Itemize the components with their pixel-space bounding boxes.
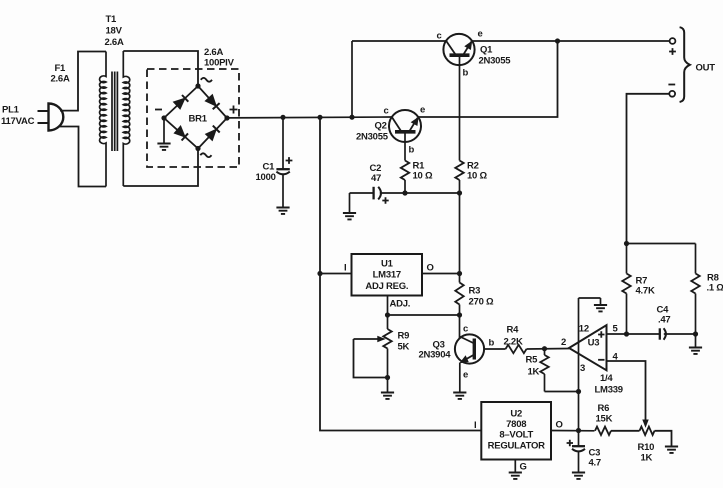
- bridge vertex nodes: [195, 83, 200, 88]
- svg-text:O: O: [556, 420, 563, 431]
- ground at R8: [689, 348, 702, 354]
- wire R8 bottom to ground: [695, 334, 697, 347]
- node C4 R8 junction: [693, 331, 698, 336]
- node R9 bottom: [385, 375, 390, 380]
- bridge diode D1 (minus to top AC): [174, 98, 186, 109]
- svg-text:7808: 7808: [506, 419, 526, 430]
- svg-text:b: b: [463, 68, 469, 79]
- svg-text:1K: 1K: [528, 367, 540, 378]
- wire secondary top to bridge: [123, 51, 198, 85]
- svg-text:c: c: [463, 324, 468, 335]
- svg-text:PL1: PL1: [2, 105, 20, 116]
- wire R10 to ground: [655, 431, 672, 446]
- svg-text:c: c: [437, 31, 442, 42]
- svg-text:I: I: [474, 420, 476, 431]
- wire Q2 base to R1: [404, 132, 406, 161]
- transformer T1 secondary winding: [123, 51, 129, 186]
- potentiometer R10 1K: [640, 427, 655, 435]
- resistor R1 10 ohm: [401, 161, 409, 181]
- plug PL1: [49, 104, 64, 131]
- wire Q3 base to R4: [484, 348, 506, 350]
- resistor R6 15K: [595, 427, 611, 435]
- transistor Q1 2N3055: [443, 34, 474, 65]
- svg-text:OUT: OUT: [696, 63, 716, 74]
- resistor R2 10 ohm: [455, 161, 463, 181]
- wire C2 to ground: [349, 193, 351, 212]
- svg-text:T1: T1: [106, 14, 118, 25]
- bridge diode D4 (bottom AC to plus): [206, 129, 217, 140]
- wire U1 ADJ pin: [387, 296, 389, 316]
- svg-text:REGULATOR: REGULATOR: [488, 441, 545, 452]
- svg-text:12: 12: [579, 324, 589, 335]
- bridge rectifier BR1 diamond: [164, 86, 227, 149]
- wire R2 bottom to base node: [459, 180, 461, 193]
- svg-text:5K: 5K: [398, 342, 410, 353]
- wire Q1 collector riser: [351, 41, 353, 117]
- svg-text:b: b: [489, 338, 495, 349]
- node R4 R5 junction: [542, 346, 547, 351]
- svg-text:F1: F1: [55, 63, 67, 74]
- wire ADJ to R3 bottom: [388, 314, 460, 316]
- svg-text:LM317: LM317: [373, 270, 401, 281]
- svg-text:b: b: [409, 145, 415, 156]
- svg-text:.1 Ω: .1 Ω: [707, 283, 723, 294]
- bridge AC tilde top: [201, 78, 212, 82]
- wire negative output sense line: [627, 94, 670, 244]
- svg-text:8–VOLT: 8–VOLT: [499, 430, 533, 441]
- svg-text:U1: U1: [381, 259, 394, 270]
- svg-text:2.2K: 2.2K: [504, 337, 523, 348]
- wire R6 to R10: [611, 430, 640, 432]
- wire U3 pin4 input: [607, 361, 646, 420]
- ground at U2: [509, 473, 522, 479]
- svg-text:G: G: [520, 462, 527, 473]
- node pin3 junction: [576, 389, 581, 394]
- capacitor C4 .47uF: [659, 328, 661, 339]
- ground at Q3 emitter: [453, 393, 466, 399]
- node top rail emitter tie: [555, 38, 560, 43]
- wire DC positive rail from bridge: [227, 116, 392, 119]
- svg-text:2.6A: 2.6A: [51, 74, 70, 85]
- bridge minus sign: [155, 109, 162, 111]
- svg-text:270 Ω: 270 Ω: [469, 297, 494, 308]
- node R1 base junction: [402, 190, 407, 195]
- node R2 base junction: [457, 190, 462, 195]
- output terminal plus: [670, 38, 676, 44]
- svg-text:LM339: LM339: [595, 385, 623, 396]
- svg-text:BR1: BR1: [189, 114, 208, 125]
- svg-text:e: e: [420, 105, 425, 116]
- svg-text:15K: 15K: [596, 414, 613, 425]
- ground at C3: [572, 473, 585, 479]
- wire R4 to comparator input: [527, 348, 570, 351]
- svg-text:2N3904: 2N3904: [419, 350, 452, 361]
- svg-text:2.6A: 2.6A: [105, 37, 124, 48]
- node ADJ junction: [385, 312, 390, 317]
- svg-text:47: 47: [371, 173, 381, 184]
- wire plug bottom lead to transformer primary: [60, 127, 106, 187]
- wire pin12 to ground: [579, 297, 601, 299]
- ground at R10: [665, 447, 678, 453]
- transformer T1 core: [112, 72, 117, 152]
- svg-text:R6: R6: [598, 403, 610, 414]
- wire U3 power pins 12 and 3: [578, 298, 580, 392]
- svg-text:O: O: [427, 263, 434, 274]
- svg-text:R3: R3: [469, 286, 481, 297]
- svg-text:18V: 18V: [106, 26, 123, 37]
- R9 wiper return wire: [354, 339, 388, 378]
- wire U2 output: [551, 430, 595, 432]
- node R3 bottom junction: [457, 312, 462, 317]
- svg-text:1/4: 1/4: [600, 373, 613, 384]
- svg-text:I: I: [344, 263, 346, 274]
- transistor Q3 2N3904: [459, 315, 461, 338]
- ground at U3 pin 12: [594, 305, 607, 311]
- bridge rectifier BR1 dashed box: [147, 69, 239, 167]
- svg-text:R4: R4: [507, 325, 520, 336]
- potentiometer R9 5K: [387, 315, 389, 329]
- svg-text:1000: 1000: [256, 172, 276, 183]
- resistor R7 4.7K: [626, 244, 628, 274]
- wire U1 input: [320, 273, 352, 275]
- svg-text:3: 3: [580, 363, 585, 374]
- transformer T1 primary winding: [100, 52, 106, 187]
- ground at C2: [343, 213, 356, 219]
- svg-text:10 Ω: 10 Ω: [413, 171, 433, 182]
- capacitor C2 47uF: [372, 187, 374, 200]
- bridge plus sign: [230, 106, 238, 114]
- svg-text:e: e: [478, 29, 483, 40]
- resistor R5 1K pullup: [544, 349, 546, 355]
- regulator U1 LM317 box: [352, 254, 423, 296]
- wire R9 to ground: [387, 378, 389, 392]
- svg-text:R9: R9: [398, 331, 410, 342]
- wire R1 bottom to base node: [404, 180, 406, 193]
- regulator U2 7808 box: [481, 402, 551, 460]
- resistor R4 2.2K: [506, 345, 527, 353]
- ground at bridge minus: [163, 118, 165, 143]
- node U2 output: [576, 428, 581, 433]
- svg-text:2N3055: 2N3055: [479, 56, 512, 67]
- R10 wiper arrow: [643, 420, 648, 427]
- svg-text:Q1: Q1: [480, 45, 493, 56]
- node R7 R8 top: [624, 241, 629, 246]
- node rail-supply: [317, 115, 322, 120]
- wire pin3 down to U2 output: [578, 392, 580, 431]
- svg-text:C1: C1: [263, 162, 276, 173]
- svg-text:100PIV: 100PIV: [204, 58, 235, 69]
- capacitor C1 1000uF: [282, 117, 284, 169]
- wire base node horizontal: [380, 192, 460, 194]
- output terminal minus: [669, 91, 675, 97]
- wire Q1 base to R2: [459, 57, 461, 161]
- svg-text:c: c: [384, 106, 389, 117]
- resistor R3 270 ohm: [459, 274, 461, 283]
- wire U2 ground pin: [514, 460, 516, 472]
- resistor R8 .1 ohm: [695, 244, 697, 274]
- wire plug top lead to transformer primary: [60, 52, 106, 111]
- node U1 input tap: [317, 271, 322, 276]
- wire supply column down to U2 input: [320, 117, 481, 430]
- wire U1 output: [422, 273, 460, 275]
- bridge diode D3 (minus to bottom AC): [174, 126, 185, 137]
- wire R2 node down to U1 output node: [459, 193, 461, 274]
- wire secondary bottom to bridge: [123, 150, 198, 187]
- wire Q3 emitter to ground: [459, 363, 461, 392]
- svg-text:2.6A: 2.6A: [204, 47, 223, 58]
- svg-text:117VAC: 117VAC: [1, 116, 35, 127]
- R9 wiper arrow: [354, 338, 379, 340]
- svg-text:ADJ.: ADJ.: [390, 299, 411, 310]
- node U1 output: [457, 271, 462, 276]
- svg-text:U2: U2: [510, 409, 522, 420]
- capacitor C3 4.7uF: [578, 431, 580, 447]
- svg-text:2N3055: 2N3055: [356, 132, 389, 143]
- ground at R9: [381, 393, 394, 399]
- svg-text:Q2: Q2: [375, 121, 387, 132]
- node rail-C1: [280, 115, 285, 120]
- node rail-Q1 collector: [349, 115, 354, 120]
- bridge AC tilde bottom: [200, 153, 211, 157]
- transistor Q2 2N3055: [389, 110, 421, 142]
- svg-text:.47: .47: [658, 315, 670, 326]
- wire R5 bottom to pin3 line: [545, 391, 579, 393]
- comparator U3 1/4 LM339: [569, 325, 607, 370]
- svg-text:5: 5: [613, 324, 619, 335]
- svg-text:R5: R5: [526, 355, 539, 366]
- svg-text:2: 2: [561, 337, 566, 348]
- svg-text:4.7K: 4.7K: [636, 286, 655, 297]
- wire top rail: [352, 40, 446, 42]
- wire U3 pin5 input: [607, 333, 660, 335]
- node pin5 R7 C4: [624, 331, 629, 336]
- bridge diode D2 (top AC to plus): [205, 95, 216, 107]
- svg-text:e: e: [463, 370, 468, 381]
- ground at C1: [276, 208, 289, 214]
- svg-text:ADJ REG.: ADJ REG.: [365, 281, 408, 292]
- svg-text:10 Ω: 10 Ω: [467, 171, 487, 182]
- output brace: [680, 27, 690, 102]
- svg-text:1K: 1K: [641, 453, 653, 464]
- svg-text:U3: U3: [588, 338, 600, 349]
- svg-text:R10: R10: [638, 442, 655, 453]
- svg-text:4.7: 4.7: [589, 458, 601, 469]
- wire R7 R8 top tie: [627, 243, 696, 245]
